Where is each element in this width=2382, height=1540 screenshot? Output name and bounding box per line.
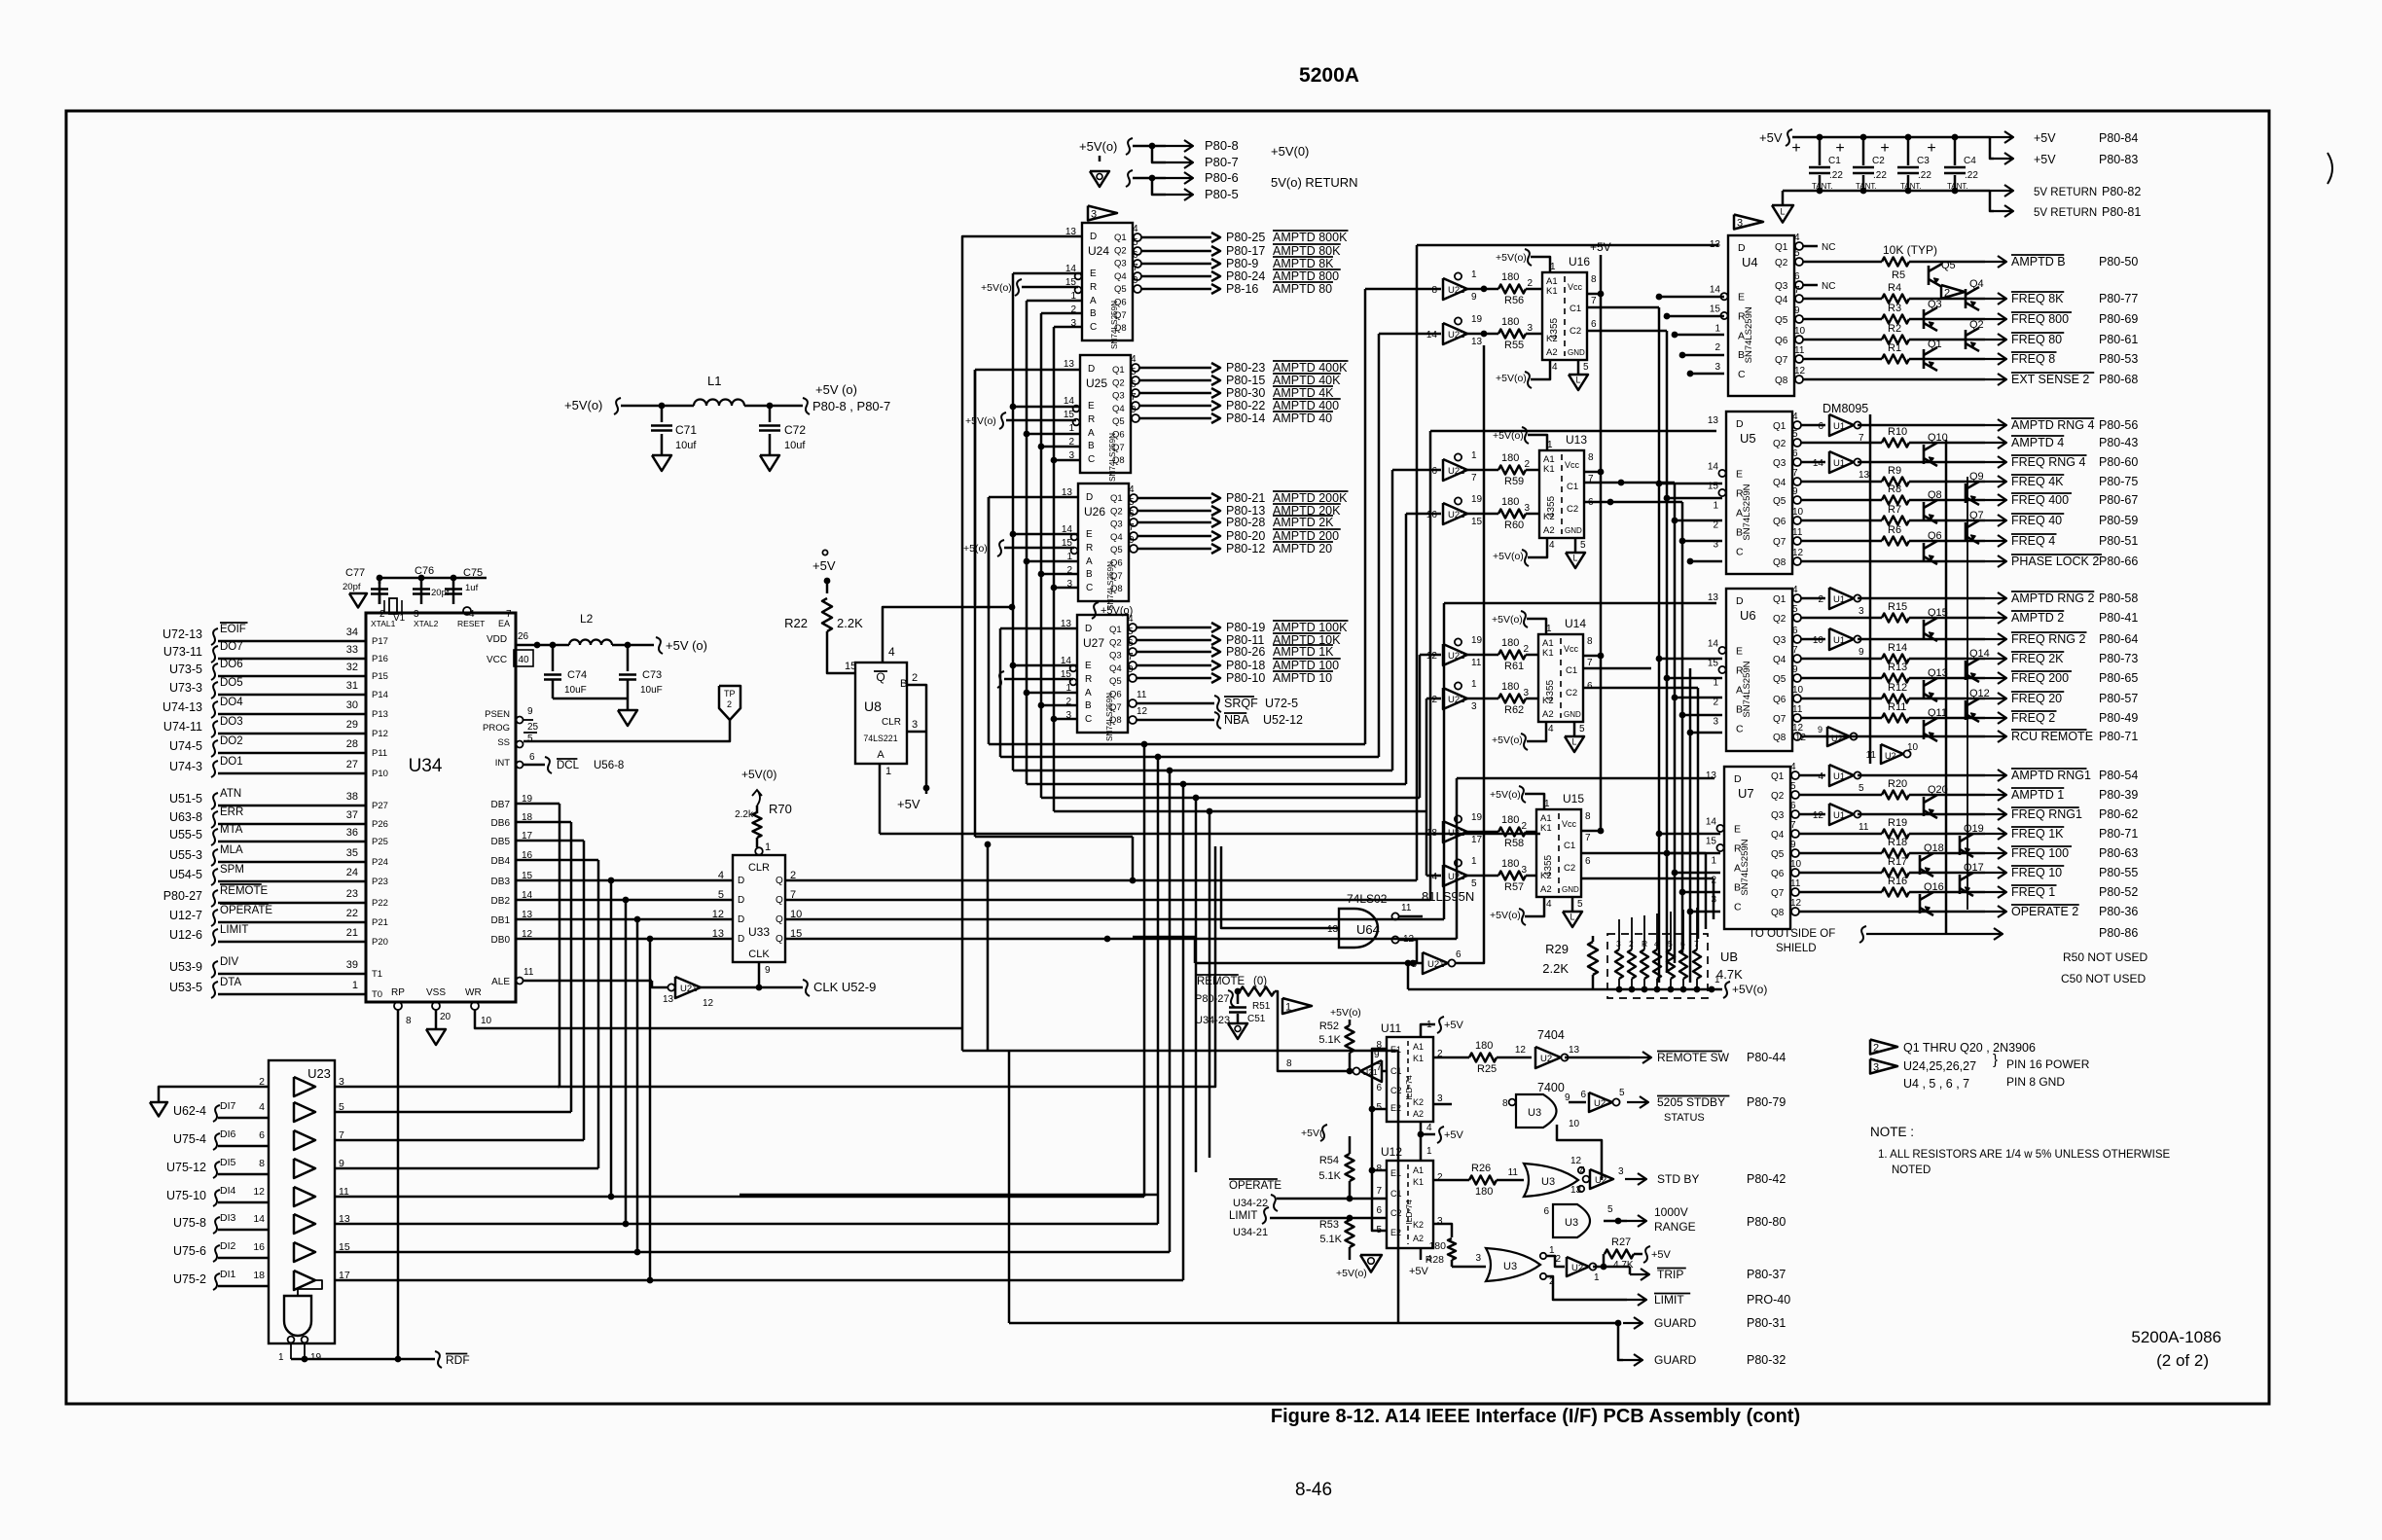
svg-text:2: 2: [1555, 1254, 1561, 1265]
svg-text:2.2K: 2.2K: [837, 616, 863, 630]
svg-text:C2: C2: [1390, 1086, 1402, 1095]
svg-text:R52: R52: [1319, 1021, 1339, 1032]
svg-text:AMPTD RNG 4: AMPTD RNG 4: [2011, 418, 2094, 432]
svg-text:2.2K: 2.2K: [1542, 961, 1569, 976]
svg-text:P80-52: P80-52: [2099, 885, 2138, 899]
svg-text:17: 17: [1471, 835, 1483, 845]
svg-text:8: 8: [1431, 285, 1437, 296]
svg-text:GUARD: GUARD: [1654, 1353, 1697, 1367]
svg-text:L1: L1: [707, 374, 721, 388]
svg-text:+5V: +5V: [1759, 130, 1783, 145]
svg-text:9: 9: [765, 965, 771, 976]
svg-text:+5V(o): +5V(o): [1492, 614, 1523, 626]
svg-text:U74-3: U74-3: [169, 760, 202, 773]
svg-text:11: 11: [1792, 704, 1803, 715]
svg-text:NOTE :: NOTE :: [1870, 1125, 1914, 1139]
buffer U23 stage 5: [294, 1187, 315, 1206]
U15 Vcc wire: [1581, 830, 1601, 833]
svg-text:3: 3: [1737, 218, 1743, 230]
wire U7 FREQ 10 row: [1799, 872, 1882, 875]
wire E R A B C feeds U26: [1010, 531, 1017, 538]
svg-text:TANT.: TANT.: [1812, 182, 1833, 191]
svg-text:7: 7: [1376, 1186, 1382, 1197]
svg-text:P80-37: P80-37: [1747, 1268, 1786, 1281]
svg-text:5: 5: [1792, 429, 1798, 440]
svg-text:6: 6: [1131, 379, 1137, 390]
svg-text:23: 23: [346, 888, 358, 900]
svg-text:4: 4: [1548, 724, 1554, 734]
svg-text:2.2k: 2.2k: [735, 809, 754, 820]
svg-text:R6: R6: [1888, 524, 1901, 536]
svg-text:+5V: +5V: [2034, 131, 2056, 145]
transistor Q6: [1923, 543, 1926, 562]
IC U25 SN74LS259N: [1080, 355, 1131, 473]
svg-text:DB1: DB1: [491, 915, 511, 926]
svg-text:P80-14: P80-14: [1226, 412, 1265, 425]
svg-text:10: 10: [481, 1016, 492, 1026]
flag 3 note: [1870, 1059, 1897, 1074]
svg-text:9: 9: [1859, 647, 1864, 658]
svg-text:FREQ 8K: FREQ 8K: [2011, 292, 2064, 305]
svg-text:U1: U1: [1833, 635, 1845, 646]
wire R58 to U15 2: [1526, 831, 1536, 834]
wire U11 E1 E2 link vertical: [1372, 1049, 1387, 1231]
svg-text:FREQ 20: FREQ 20: [2011, 692, 2062, 705]
network resistor 6: [1679, 949, 1687, 979]
svg-text:14: 14: [253, 1213, 265, 1225]
svg-text:2: 2: [912, 672, 918, 684]
svg-text:1: 1: [352, 980, 358, 991]
svg-text:DI7: DI7: [220, 1100, 236, 1112]
svg-text:Q8: Q8: [1928, 489, 1942, 501]
svg-text:Q5: Q5: [1110, 545, 1123, 555]
svg-text:P80-31: P80-31: [1747, 1316, 1786, 1330]
svg-text:P80-25: P80-25: [1226, 231, 1265, 244]
svg-text:2: 2: [1714, 342, 1720, 353]
svg-text:C: C: [1090, 322, 1097, 333]
svg-text:19: 19: [1471, 494, 1483, 505]
svg-text:1: 1: [1713, 501, 1718, 512]
wire DI2 to U23: [218, 1257, 269, 1260]
svg-text:Vcc: Vcc: [1568, 282, 1583, 292]
svg-text:C73: C73: [642, 669, 662, 681]
svg-text:180: 180: [1501, 814, 1519, 826]
IC U14 4355 opto: [1538, 634, 1583, 722]
svg-text:SHIELD: SHIELD: [1776, 943, 1817, 954]
transistor Q11: [1923, 720, 1926, 739]
wire DI7 to U23: [218, 1117, 269, 1120]
svg-text:(0): (0): [1253, 976, 1267, 987]
svg-text:U72-5: U72-5: [1265, 697, 1298, 710]
buffer U21 lower: [1423, 952, 1448, 974]
svg-text:1: 1: [1426, 1146, 1432, 1157]
svg-text:+5V(o): +5V(o): [1496, 252, 1527, 264]
svg-text:U12-6: U12-6: [169, 928, 202, 942]
svg-text:C1: C1: [1390, 1189, 1402, 1199]
svg-text:TANT.: TANT.: [1947, 182, 1968, 191]
svg-text:K2: K2: [1413, 1097, 1424, 1107]
svg-text:11: 11: [1137, 690, 1147, 700]
svg-text:6: 6: [1128, 638, 1134, 649]
svg-text:A: A: [1086, 556, 1093, 567]
svg-text:U34-21: U34-21: [1233, 1227, 1268, 1238]
svg-text:U14: U14: [1565, 617, 1586, 630]
svg-text:5: 5: [1129, 497, 1135, 508]
svg-text:R14: R14: [1888, 642, 1907, 654]
svg-text:DB4: DB4: [491, 856, 511, 867]
buffer U22 to R62: [1443, 688, 1467, 709]
svg-text:11: 11: [1859, 822, 1869, 833]
svg-text:AMPTD 2K: AMPTD 2K: [1273, 516, 1334, 529]
svg-text:P80-15: P80-15: [1226, 374, 1265, 387]
svg-text:Q1 THRU Q20 , 2N3906: Q1 THRU Q20 , 2N3906: [1903, 1041, 2036, 1055]
svg-text:VSS: VSS: [426, 987, 446, 998]
svg-text:38: 38: [346, 791, 358, 803]
svg-text:+5V: +5V: [2034, 153, 2056, 166]
wire RDF junction vertical from U34 RP: [397, 1010, 400, 1359]
svg-text:U3: U3: [1503, 1261, 1517, 1272]
svg-text:P14: P14: [372, 690, 388, 700]
svg-text:3: 3: [1859, 606, 1864, 617]
svg-text:20pf: 20pf: [343, 582, 361, 592]
svg-text:OPERATE 2: OPERATE 2: [2011, 905, 2078, 918]
U14 Vcc wire: [1583, 655, 1601, 658]
svg-text:36: 36: [346, 827, 358, 839]
svg-text:+5V(o): +5V(o): [1493, 430, 1524, 442]
svg-text:13: 13: [1706, 770, 1717, 781]
capacitor C4 .22 TANT: [1954, 137, 1957, 165]
resistor R60 180: [1467, 513, 1498, 516]
svg-text:3: 3: [1091, 209, 1097, 221]
svg-text:P80-69: P80-69: [2099, 312, 2138, 326]
svg-text:DI6: DI6: [220, 1128, 236, 1140]
svg-text:Q7: Q7: [1110, 571, 1123, 582]
wire ERR to U34 pin 37: [218, 823, 366, 826]
svg-text:GUARD: GUARD: [1654, 1316, 1697, 1330]
svg-text:+5V(0): +5V(0): [1271, 144, 1309, 159]
ground near C77: [349, 593, 367, 607]
svg-text:+5V: +5V: [1444, 1020, 1464, 1031]
IC U8 74LS221: [855, 663, 907, 764]
buffer U1 FREQ RNG 2: [1801, 638, 1825, 641]
svg-text:AMPTD 100K: AMPTD 100K: [1273, 621, 1348, 634]
svg-text:FREQ 1K: FREQ 1K: [2011, 827, 2064, 841]
buffer U22 to R55: [1443, 323, 1467, 344]
feeds to U6 E R A B C: [1656, 656, 1663, 663]
wire VDD to L2: [516, 644, 569, 647]
svg-text:AMPTD 100: AMPTD 100: [1273, 659, 1339, 672]
transistor Q19: [1959, 836, 1962, 855]
svg-text:+: +: [1880, 140, 1889, 157]
stray small circle above +5V: [822, 550, 827, 555]
svg-text:R: R: [1090, 282, 1097, 293]
svg-text:Q1: Q1: [1109, 625, 1122, 635]
svg-text:NOTED: NOTED: [1892, 1164, 1931, 1176]
svg-text:13: 13: [1859, 470, 1870, 481]
svg-text:16: 16: [253, 1241, 265, 1253]
svg-text:R8: R8: [1888, 483, 1901, 495]
svg-text:P80-61: P80-61: [2099, 333, 2138, 346]
IC U23 octal buffer: [269, 1060, 335, 1343]
svg-text:12: 12: [1795, 733, 1807, 743]
svg-text:16: 16: [1426, 510, 1438, 520]
svg-text:P26: P26: [372, 819, 388, 830]
svg-text:P80-60: P80-60: [2099, 455, 2138, 469]
wire EOIF to U34 pin 34: [218, 640, 366, 643]
wire C1 C2 rows to verticals: [1638, 330, 1667, 333]
svg-text:1: 1: [1549, 1245, 1555, 1256]
wire REMOTE to U34 pin 23: [218, 902, 366, 905]
svg-text:19: 19: [1471, 812, 1483, 823]
svg-text:RDF: RDF: [446, 1353, 470, 1367]
svg-text:K1: K1: [1540, 823, 1552, 834]
svg-text:B: B: [1085, 700, 1092, 711]
transistor Q7: [1965, 522, 1967, 542]
schematic border frame: [66, 111, 2269, 1404]
svg-text:Q2: Q2: [1114, 245, 1127, 256]
capacitor C73: [627, 645, 630, 671]
svg-text:4: 4: [1128, 614, 1134, 625]
svg-text:STATUS: STATUS: [1664, 1112, 1705, 1124]
svg-text:A: A: [1734, 863, 1741, 875]
svg-text:P80-86: P80-86: [2099, 926, 2138, 940]
svg-text:Q5: Q5: [1941, 260, 1956, 271]
svg-text:PHASE LOCK 2: PHASE LOCK 2: [2011, 555, 2099, 568]
svg-text:180: 180: [1475, 1186, 1493, 1198]
svg-text:4: 4: [1129, 484, 1135, 495]
wire U5 FREQ 400 row: [1801, 499, 1882, 502]
svg-text:P80-32: P80-32: [1747, 1353, 1786, 1367]
svg-text:.22: .22: [1873, 170, 1887, 181]
svg-text:DB2: DB2: [491, 896, 511, 907]
svg-text:DO6: DO6: [220, 659, 243, 670]
svg-text:9: 9: [1790, 840, 1796, 850]
svg-text:Q6: Q6: [1114, 298, 1127, 308]
svg-text:Q8: Q8: [1771, 908, 1785, 918]
svg-text:AMPTD 80K: AMPTD 80K: [1273, 244, 1341, 258]
wire U4 Q8 EXT SENSE row: [1803, 378, 1985, 381]
svg-text:+5V: +5V: [812, 558, 836, 573]
network resistor 2: [1628, 949, 1636, 979]
ground top right: [1782, 191, 1785, 205]
svg-text:P10: P10: [372, 769, 388, 779]
svg-text:R59: R59: [1504, 476, 1524, 487]
svg-text:R: R: [1086, 543, 1093, 554]
svg-text:5: 5: [1619, 1088, 1625, 1098]
bus verticals to bottom section: [1195, 798, 1198, 1172]
svg-text:P80-23: P80-23: [1226, 361, 1265, 375]
wire +5V(o) rail bottom of network: [1405, 960, 1412, 967]
svg-text:4: 4: [1552, 362, 1558, 373]
svg-text:PSEN: PSEN: [485, 709, 510, 720]
svg-text:FREQ 2: FREQ 2: [2011, 711, 2055, 725]
IC U24 SN74LS259N: [1082, 223, 1133, 340]
svg-text:Q6: Q6: [1773, 517, 1786, 527]
svg-text:Q4: Q4: [1110, 532, 1123, 543]
svg-text:A2: A2: [1542, 709, 1554, 720]
svg-text:LIMIT: LIMIT: [1229, 1210, 1257, 1222]
svg-text:REMOTE SW: REMOTE SW: [1657, 1051, 1730, 1064]
svg-text:P22: P22: [372, 898, 388, 909]
svg-text:6: 6: [1376, 1083, 1382, 1093]
svg-text:7: 7: [1794, 285, 1800, 296]
svg-text:7: 7: [1694, 939, 1699, 949]
svg-text:3: 3: [1873, 1062, 1879, 1074]
resistor R26 180: [1432, 1179, 1469, 1182]
svg-text:6: 6: [1456, 949, 1462, 960]
svg-text:13: 13: [1471, 337, 1483, 347]
svg-text:RP: RP: [391, 987, 405, 998]
svg-text:+5V(o): +5V(o): [1732, 983, 1767, 996]
svg-text:14: 14: [1708, 461, 1719, 472]
IC U33 quad latch: [733, 855, 785, 962]
wire TRIP out: [1593, 1266, 1630, 1269]
svg-text:+5V(: +5V(: [1301, 1128, 1323, 1139]
svg-text:+5V(o): +5V(o): [1336, 1268, 1367, 1279]
svg-text:+5V(0): +5V(0): [741, 768, 776, 781]
svg-text:U16: U16: [1569, 255, 1590, 269]
svg-text:U74-13: U74-13: [162, 700, 202, 714]
svg-text:K1: K1: [1542, 648, 1554, 659]
network resistor 1: [1615, 949, 1623, 979]
svg-text:4.7K: 4.7K: [1716, 967, 1743, 982]
svg-text:PROG: PROG: [483, 723, 510, 734]
svg-text:Q: Q: [776, 914, 783, 925]
wire ATN to U34 pin 38: [218, 805, 366, 807]
svg-text:WR: WR: [465, 987, 482, 998]
svg-text:AMPTD 400: AMPTD 400: [1273, 399, 1339, 412]
svg-text:U2: U2: [1594, 1098, 1606, 1109]
svg-text:R60: R60: [1504, 519, 1524, 531]
svg-text:RESET: RESET: [457, 619, 485, 628]
svg-text:AMPTD 800: AMPTD 800: [1273, 269, 1339, 283]
svg-text:P80-41: P80-41: [2099, 611, 2138, 625]
svg-text:2: 2: [1873, 1043, 1879, 1055]
wire DI4 to U23: [218, 1201, 269, 1204]
svg-text:4355: 4355: [1543, 854, 1554, 877]
wire U25 D feed: [975, 369, 1080, 372]
svg-text:U24: U24: [1088, 244, 1109, 258]
svg-text:EXT SENSE 2: EXT SENSE 2: [2011, 373, 2089, 386]
svg-text:A: A: [1736, 685, 1743, 697]
svg-text:Q: Q: [776, 895, 783, 906]
svg-text:P21: P21: [372, 917, 388, 928]
wire GUARD out: [1397, 1051, 1400, 1323]
svg-text:5: 5: [1131, 367, 1137, 377]
svg-text:P80-64: P80-64: [2099, 632, 2138, 646]
svg-text:7: 7: [1376, 1062, 1382, 1073]
svg-text:31: 31: [346, 680, 358, 692]
svg-text:Q7: Q7: [1773, 537, 1786, 548]
svg-text:P80-81: P80-81: [2102, 205, 2141, 219]
bus data verticals down to U23 outputs: [559, 804, 561, 1087]
svg-text:6: 6: [529, 752, 535, 763]
svg-text:Q7: Q7: [1114, 310, 1127, 321]
svg-text:U22: U22: [1448, 695, 1464, 705]
wire U5 FREQ 4 row: [1801, 540, 1882, 543]
svg-text:10uF: 10uF: [564, 685, 587, 696]
svg-text:5: 5: [1790, 781, 1796, 792]
wire 5V return rail: [1783, 190, 1990, 192]
wire L2 to +5V(o): [612, 644, 654, 647]
svg-text:P80-19: P80-19: [1226, 621, 1265, 634]
wire DO4 to U34 pin 30: [218, 713, 366, 716]
wire DO7 to U34 pin 33: [218, 658, 366, 661]
svg-text:P80-44: P80-44: [1747, 1051, 1786, 1064]
svg-text:1: 1: [1711, 856, 1716, 867]
svg-text:Q2: Q2: [1110, 506, 1123, 517]
inductor L2: [569, 640, 612, 646]
svg-text:+5V(o): +5V(o): [1490, 789, 1521, 801]
svg-text:Q7: Q7: [1109, 702, 1122, 713]
svg-text:B: B: [1738, 349, 1745, 361]
svg-text:+5V(o): +5V(o): [1330, 1007, 1361, 1019]
svg-text:+5V: +5V: [897, 797, 920, 811]
svg-text:21: 21: [346, 927, 358, 939]
resistor R56 180: [1467, 288, 1498, 291]
svg-text:180: 180: [1501, 496, 1519, 508]
svg-text:P80-6: P80-6: [1205, 170, 1239, 185]
svg-text:Q3: Q3: [1771, 810, 1785, 821]
svg-text:15: 15: [1706, 837, 1717, 847]
buffer U1 FREQ RNG 4: [1801, 461, 1825, 464]
svg-text:180: 180: [1428, 1240, 1446, 1252]
svg-text:4: 4: [888, 645, 895, 659]
svg-text:PIN 8 GND: PIN 8 GND: [2006, 1075, 2065, 1089]
wire bus elbow row 860: [975, 836, 1133, 839]
svg-text:26: 26: [518, 631, 529, 642]
buffer U23 stage 3: [294, 1130, 315, 1150]
svg-text:5: 5: [1583, 362, 1589, 373]
svg-text:U64: U64: [1356, 922, 1380, 937]
svg-text:40: 40: [518, 655, 529, 665]
svg-text:6: 6: [1133, 250, 1138, 261]
svg-text:11: 11: [1790, 878, 1801, 889]
collector rail verticals right side: [1869, 414, 1872, 764]
svg-text:DO3: DO3: [220, 716, 243, 728]
svg-text:+5V(o): +5V(o): [1492, 734, 1523, 746]
svg-text:1: 1: [1471, 856, 1477, 867]
svg-text:R17: R17: [1888, 856, 1907, 868]
svg-text:OPERATE: OPERATE: [1229, 1180, 1281, 1192]
IC U16 4355 opto: [1542, 272, 1587, 360]
svg-text:DI1: DI1: [220, 1269, 236, 1280]
svg-text:+: +: [1791, 140, 1800, 157]
svg-text:180: 180: [1501, 271, 1519, 283]
svg-text:DB0: DB0: [491, 935, 511, 946]
svg-text:4355: 4355: [1546, 495, 1557, 518]
svg-text:+5V(o): +5V(o): [981, 282, 1012, 294]
svg-text:12: 12: [1813, 810, 1824, 821]
svg-text:TO OUTSIDE OF: TO OUTSIDE OF: [1749, 928, 1835, 940]
svg-text:U75-12: U75-12: [166, 1161, 206, 1174]
svg-text:P80-27: P80-27: [163, 889, 202, 903]
capacitor C2 .22 TANT: [1862, 137, 1865, 165]
wire U6 FREQ 2 row: [1801, 717, 1882, 720]
svg-text:AMPTD 400K: AMPTD 400K: [1273, 361, 1348, 375]
svg-text:B: B: [1736, 527, 1743, 539]
svg-text:R55: R55: [1504, 340, 1524, 351]
svg-text:CLR: CLR: [748, 862, 770, 874]
svg-text:P25: P25: [372, 837, 388, 847]
svg-text:A2: A2: [1413, 1109, 1424, 1119]
svg-text:U52-12: U52-12: [1263, 713, 1303, 727]
svg-text:Q16: Q16: [1924, 881, 1944, 893]
svg-text:5V RETURN: 5V RETURN: [2034, 187, 2097, 198]
svg-text:P80-50: P80-50: [2099, 255, 2138, 269]
wire 1000V RANGE out: [1604, 1220, 1627, 1223]
bus horizontal bundle middle: [989, 743, 1365, 746]
